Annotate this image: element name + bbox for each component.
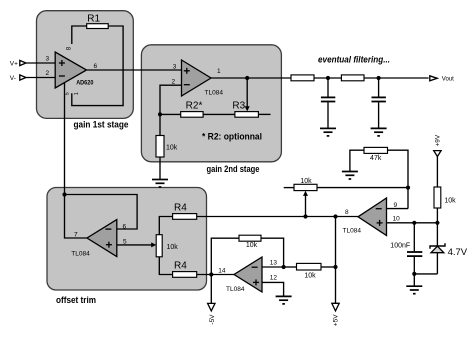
wire pin13 node to 10k [284, 266, 297, 268]
svg-text:gain 1st stage: gain 1st stage [74, 119, 129, 129]
node zener junction [435, 221, 439, 225]
wire pin 2 to divider node [160, 85, 182, 135]
wire R1 right loop to pin 1 [72, 26, 123, 106]
capacitor filter 1 [321, 78, 335, 128]
wire 47k left to ground [350, 150, 364, 171]
svg-text:R2*: R2* [186, 101, 203, 112]
svg-text:9: 9 [394, 202, 398, 209]
node R2 left junction [158, 112, 162, 116]
potentiometer R3 [232, 100, 258, 117]
svg-text:V-: V- [10, 75, 16, 82]
ground 47k [342, 172, 358, 180]
ground pin 12 [276, 296, 292, 304]
potentiometer 10k offset [156, 235, 178, 257]
node zener cap ground junction [412, 272, 416, 276]
svg-text:3: 3 [46, 56, 50, 63]
node +5V branch junction [333, 214, 337, 218]
wire pot right to pin 9 node [317, 187, 408, 189]
rail +5V arrow [332, 303, 340, 326]
wire 47k right to pin 9 node [388, 150, 409, 208]
node output junction [245, 76, 249, 80]
capacitor 100nF [390, 223, 422, 286]
svg-text:8: 8 [345, 209, 349, 216]
port V- [10, 75, 26, 82]
wire feedback left to output node [211, 238, 239, 274]
wire pin 12 to ground [262, 282, 284, 296]
wire V+ to pin3 [26, 62, 56, 64]
zener diode 4.7V [430, 223, 468, 274]
gain 1st stage block box [37, 11, 134, 119]
ground 2nd stage [152, 180, 168, 188]
ground filter 1 [320, 128, 336, 136]
svg-text:10k: 10k [166, 145, 178, 152]
port Vout [430, 76, 454, 83]
svg-text:2: 2 [172, 79, 176, 86]
wire 10k to ground [159, 157, 161, 179]
wire filter 1 to filter 2 [314, 77, 341, 79]
svg-text:100nF: 100nF [390, 243, 410, 250]
svg-text:6: 6 [94, 63, 98, 70]
op-amp U4 TL084 inverter [226, 257, 262, 293]
svg-text:V+: V+ [10, 60, 18, 67]
svg-text:10k: 10k [246, 242, 258, 249]
svg-text:4.7V: 4.7V [448, 247, 468, 258]
resistor 10k second stage [156, 136, 178, 158]
wire output pin 8 line [197, 216, 358, 218]
op-amp U1 AD620 [55, 52, 94, 88]
wire AD620 output to 2nd stage pin 3 [87, 69, 182, 71]
svg-text:eventual filtering...: eventual filtering... [318, 54, 390, 64]
wire pot left stub [284, 187, 294, 189]
svg-text:1: 1 [217, 68, 221, 75]
wire 10k to +5V vertical [321, 266, 336, 268]
wire R3 right stub [258, 113, 270, 115]
resistor R4 bottom [173, 260, 197, 277]
node 100nF junction [412, 221, 416, 225]
capacitor filter 2 [372, 78, 386, 128]
node pin 13 junction [282, 265, 286, 269]
svg-text:* R2: optionnal: * R2: optionnal [202, 131, 262, 141]
wire R1 left to pin 8 [72, 26, 87, 44]
svg-text:+5V: +5V [332, 314, 339, 326]
svg-text:R4: R4 [174, 260, 187, 271]
svg-text:gain 2nd stage: gain 2nd stage [207, 164, 260, 174]
svg-text:offset trim: offset trim [56, 295, 96, 305]
node lower 10k junction [333, 265, 337, 269]
svg-text:14: 14 [218, 268, 226, 275]
node ref junction [62, 192, 66, 196]
wire 10k to zener node [436, 208, 438, 223]
svg-text:2: 2 [46, 70, 50, 77]
svg-text:TL084: TL084 [205, 89, 224, 96]
svg-text:10k: 10k [167, 244, 179, 251]
svg-text:+9V: +9V [435, 134, 442, 146]
node pin 14 junction [209, 272, 213, 276]
wire pin 9 [387, 208, 409, 210]
node filter cap 1 [326, 76, 330, 80]
resistor 10k inverter input [297, 263, 322, 279]
node wiper junction [303, 214, 307, 218]
svg-text:47k: 47k [370, 155, 382, 162]
resistor filter 1 [291, 75, 314, 81]
wire pot bottom to R4 bottom [159, 257, 172, 275]
wire feedback right to pin 13 [261, 238, 284, 267]
op-amp U2 TL084 [182, 60, 224, 96]
svg-text:10k: 10k [444, 198, 456, 205]
svg-text:10k: 10k [300, 178, 312, 185]
resistor R4 top [173, 202, 197, 219]
wire pin 14 row [197, 274, 234, 276]
wire AD620 ref pin 5 down to offset trim [64, 82, 66, 195]
svg-text:12: 12 [270, 275, 278, 282]
svg-text:TL084: TL084 [226, 286, 245, 293]
resistor filter 2 [341, 75, 364, 81]
supply +9V arrow [434, 134, 442, 156]
svg-text:R1: R1 [87, 13, 100, 24]
resistor 47k [364, 147, 388, 162]
svg-text:10k: 10k [304, 272, 316, 279]
ground filter 2 [371, 128, 387, 136]
svg-text:AD620: AD620 [76, 80, 94, 87]
resistor 10k zener bias [434, 187, 456, 208]
op-amp U5 TL084 offset buffer [71, 220, 117, 258]
potentiometer 10k gain trim [294, 178, 317, 190]
resistor 10k feedback [239, 235, 261, 249]
wire pin 5 to pot wiper [117, 242, 157, 247]
svg-text:10: 10 [393, 216, 401, 223]
gain 2nd stage block box [141, 45, 281, 162]
wire V- to pin2 [26, 77, 56, 79]
svg-text:TL084: TL084 [71, 250, 90, 257]
node filter cap 2 [377, 76, 381, 80]
svg-text:R4: R4 [174, 202, 187, 213]
svg-text:5: 5 [65, 92, 71, 95]
svg-text:TL084: TL084 [343, 227, 362, 234]
wire +9V to 10k [436, 157, 438, 188]
svg-text:13: 13 [270, 259, 278, 266]
svg-text:R3: R3 [232, 100, 245, 111]
ground zener [406, 286, 422, 294]
wire zener bottom to ground [414, 273, 437, 275]
op-amp U3 TL084 reference [343, 198, 387, 236]
wire pot wiper to output line [303, 191, 308, 217]
wire pot top to R4 top [159, 217, 172, 235]
resistor R2 [181, 101, 203, 118]
rail -5V arrow [208, 275, 216, 325]
wire node to R2 [160, 113, 181, 115]
wire output 2nd stage [211, 77, 291, 79]
wire filter 2 to Vout [364, 77, 429, 79]
wire R2 to R3 [203, 113, 235, 115]
wire feedback loop top [65, 195, 138, 230]
svg-text:1: 1 [74, 92, 80, 95]
resistor R1 [87, 13, 109, 28]
wire pin 10 line [387, 222, 438, 224]
port V+ [10, 60, 26, 67]
wire +5V vertical [335, 217, 337, 304]
svg-text:Vout: Vout [442, 77, 454, 83]
node pin 9 junction [406, 186, 410, 190]
wire pin 7 output [65, 195, 88, 239]
wire pin 13 [262, 266, 284, 268]
wire R3 wiper from output [245, 78, 250, 111]
offset trim block box [47, 188, 207, 291]
svg-text:3: 3 [173, 63, 177, 70]
svg-text:-5V: -5V [209, 314, 216, 325]
